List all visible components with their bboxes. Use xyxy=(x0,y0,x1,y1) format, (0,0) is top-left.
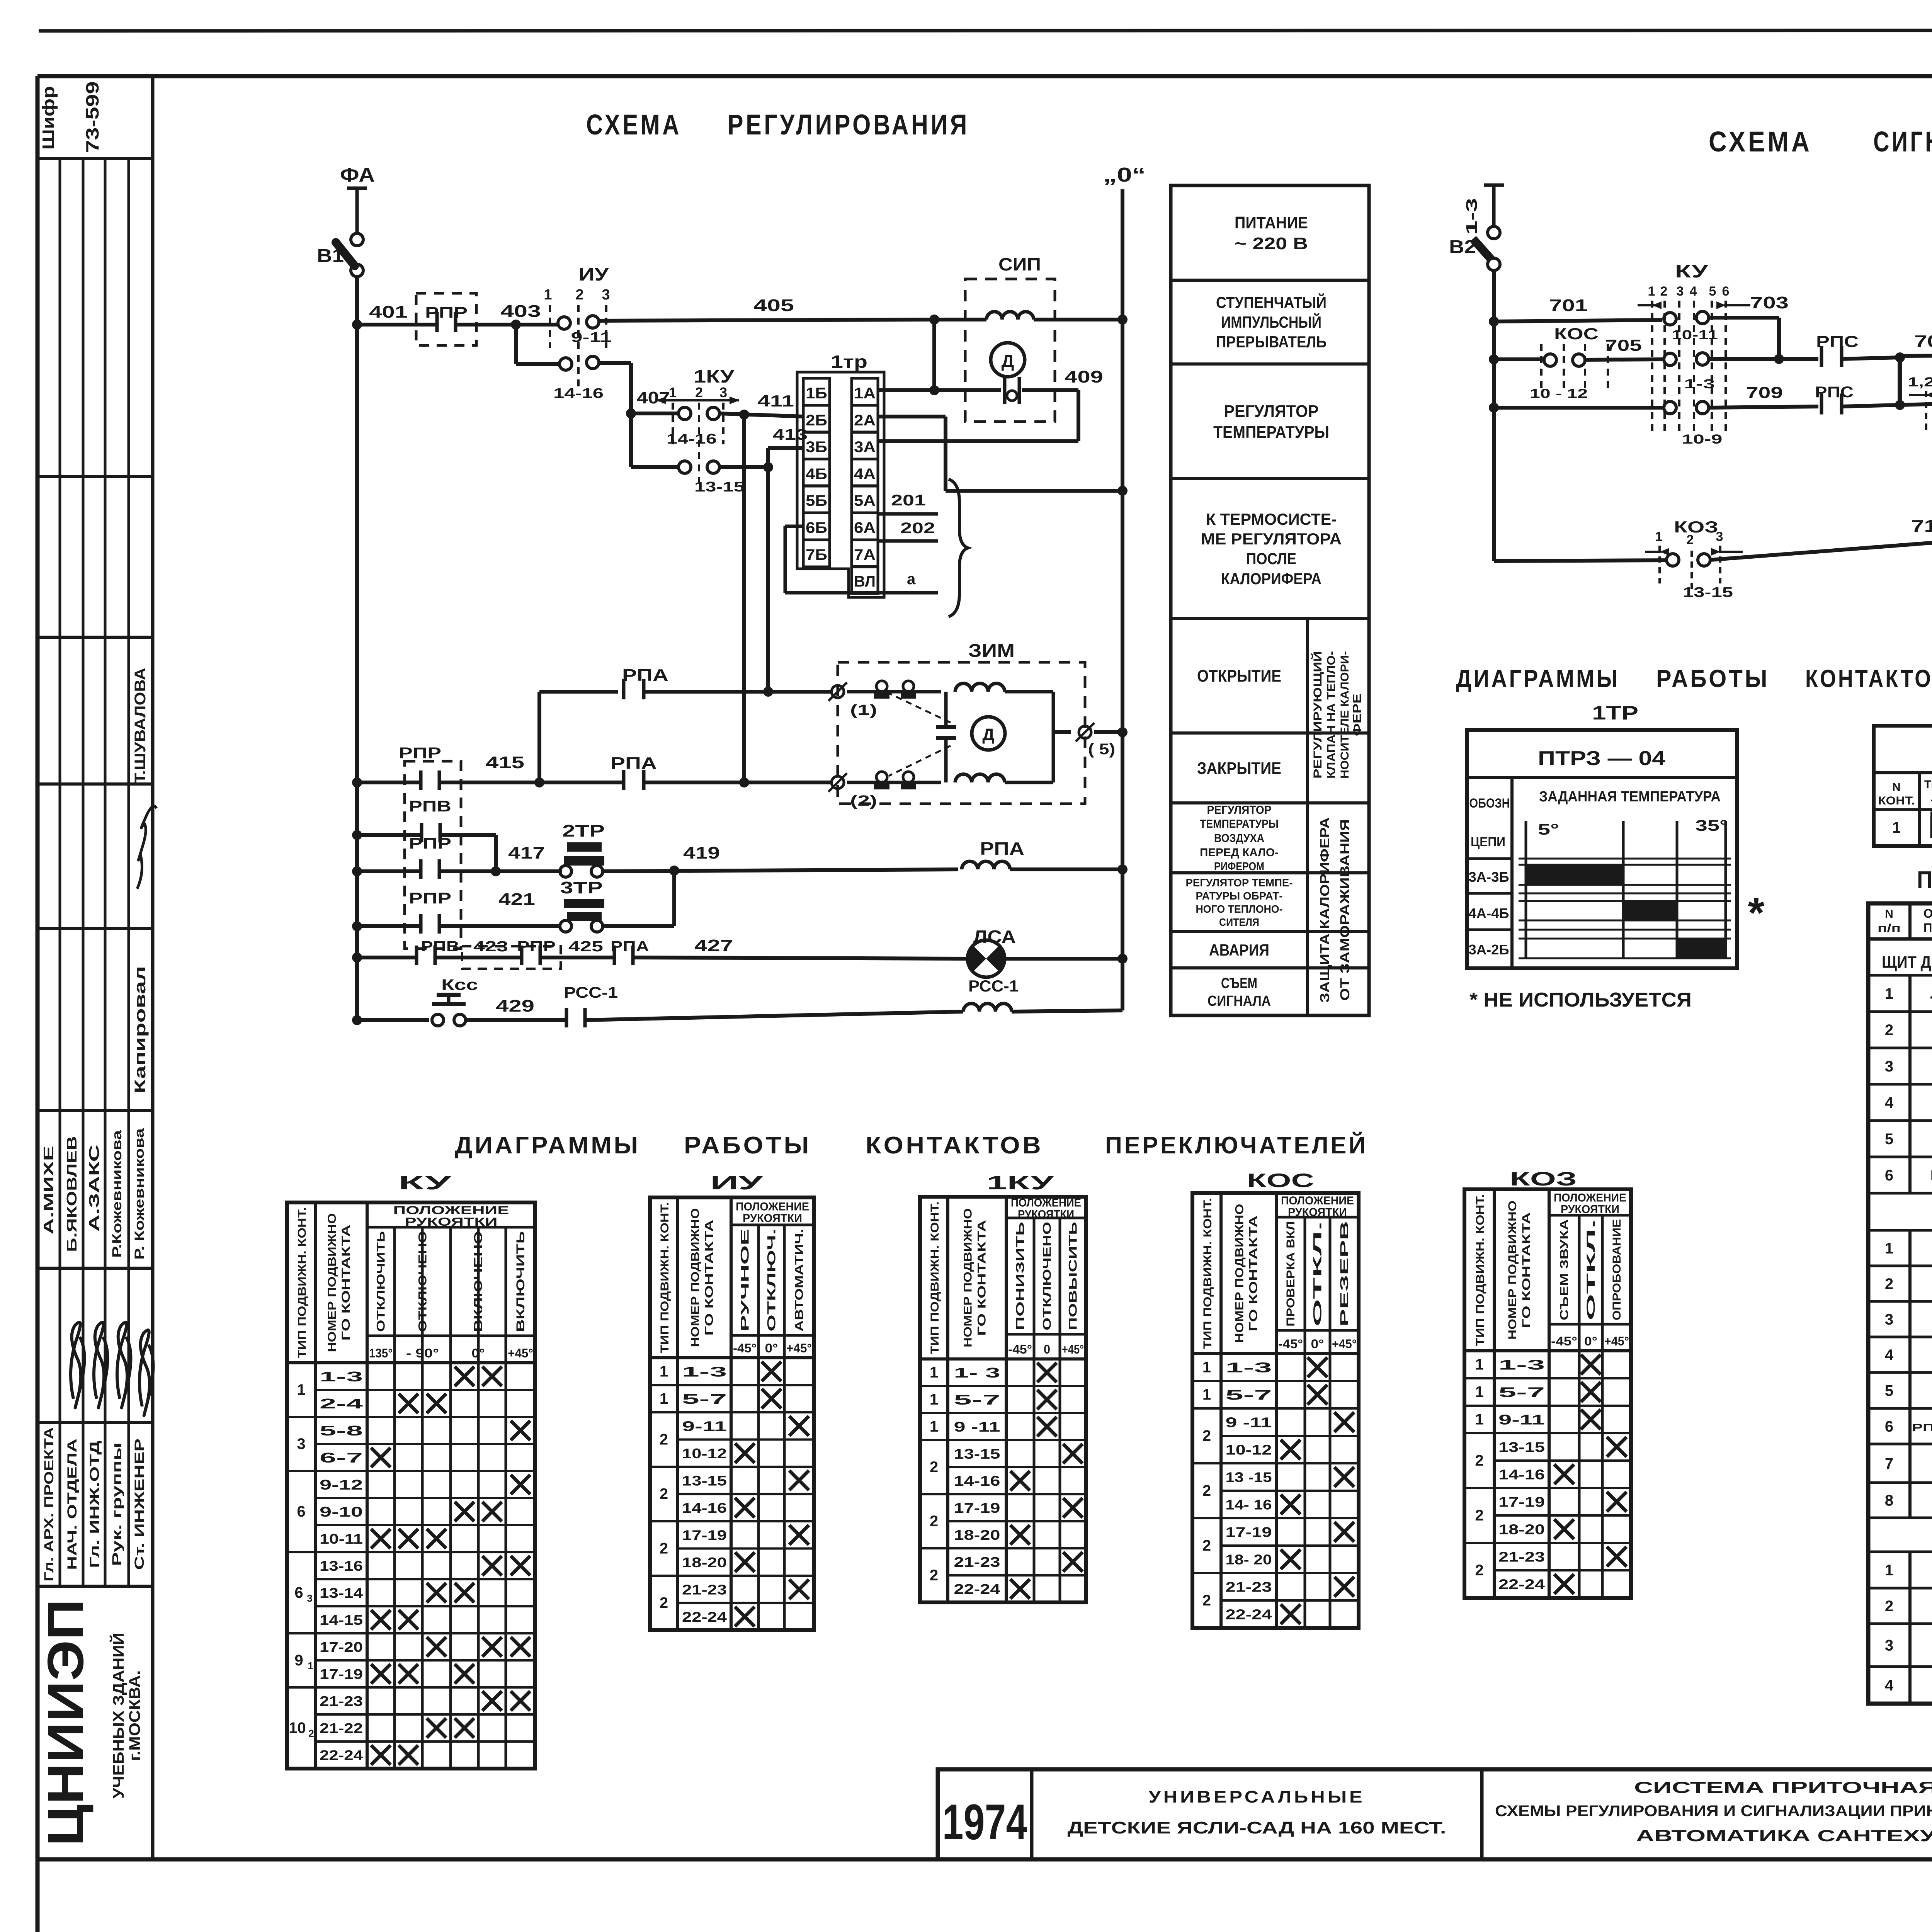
svg-text:п/п: п/п xyxy=(1878,922,1901,935)
svg-text:ЩИТ ДИСТАНЦИОННОГО УПРАВЛЕНИ: ЩИТ ДИСТАНЦИОННОГО УПРАВЛЕНИЯ И АВАРИЙНО… xyxy=(1882,952,1932,972)
ZIM dashed link lines xyxy=(889,693,951,723)
svg-text:1: 1 xyxy=(1648,284,1655,299)
svg-text:ТЕМПЕРАТУРЫ: ТЕМПЕРАТУРЫ xyxy=(1213,423,1329,442)
net 705 from bus xyxy=(1494,357,1544,361)
svg-text:2: 2 xyxy=(695,384,703,400)
svg-text:22-24: 22-24 xyxy=(1226,1607,1272,1622)
wire 705 xyxy=(1585,359,1664,360)
svg-text:РУКОЯТКИ: РУКОЯТКИ xyxy=(1561,1203,1619,1216)
svg-text:1- 3: 1- 3 xyxy=(954,1365,1000,1381)
svg-text:НОМЕР ПОДВИЖНО: НОМЕР ПОДВИЖНО xyxy=(326,1213,338,1352)
svg-text:ДИАГРАММЫ: ДИАГРАММЫ xyxy=(455,1132,640,1159)
svg-text:429: 429 xyxy=(496,997,534,1015)
svg-text:14-16: 14-16 xyxy=(1498,1467,1545,1483)
svg-text:10-11: 10-11 xyxy=(320,1531,363,1547)
svg-text:1: 1 xyxy=(1202,1359,1211,1376)
svg-text:НОМЕР ПОДВИЖНО: НОМЕР ПОДВИЖНО xyxy=(1233,1204,1246,1343)
svg-text:9 -11: 9 -11 xyxy=(954,1419,1000,1435)
svg-text:1974: 1974 xyxy=(942,1794,1027,1850)
wire 401 xyxy=(357,323,437,327)
svg-text:1: 1 xyxy=(1655,529,1663,544)
svg-text:ЗИМ: ЗИМ xyxy=(968,641,1015,661)
svg-text:СХЕМЫ РЕГУЛИРОВАНИЯ И СИГНАЛИ: СХЕМЫ РЕГУЛИРОВАНИЯ И СИГНАЛИЗАЦИИ ПРИНЦ… xyxy=(1495,1803,1932,1820)
svg-text:ПОЛОЖЕНИЕ: ПОЛОЖЕНИЕ xyxy=(1554,1192,1626,1204)
svg-text:г.МОСКВА.: г.МОСКВА. xyxy=(126,1670,143,1761)
svg-text:ДЕТСКИЕ ЯСЛИ-САД НА 160 МЕС: ДЕТСКИЕ ЯСЛИ-САД НА 160 МЕСТ. xyxy=(1068,1818,1446,1837)
svg-text:КОНТАКТОВ: КОНТАКТОВ xyxy=(866,1132,1043,1159)
svg-text:0°: 0° xyxy=(1584,1334,1597,1348)
svg-text:*: * xyxy=(1748,889,1765,937)
wire 703 xyxy=(1709,316,1779,320)
svg-text:СИГНАЛИЗАЦИИ: СИГНАЛИЗАЦИИ xyxy=(1873,126,1932,158)
svg-text:1А: 1А xyxy=(854,385,876,402)
svg-text:10-9: 10-9 xyxy=(1682,432,1723,447)
svg-text:ИУ: ИУ xyxy=(710,1172,764,1194)
svg-text:РПА: РПА xyxy=(611,939,649,955)
svg-text:2: 2 xyxy=(930,1567,938,1584)
svg-text:РПА,РСС-1: РПА,РСС-1 xyxy=(1912,1422,1932,1434)
svg-text:ФА: ФА xyxy=(340,164,375,186)
svg-text:ОБОЗНАЧ.: ОБОЗНАЧ. xyxy=(1923,906,1932,920)
svg-text:3: 3 xyxy=(719,384,727,400)
zero bus left schematic xyxy=(1121,189,1124,1010)
svg-text:РПА: РПА xyxy=(611,754,657,773)
svg-text:РЕГУЛИРУЮЩИЙ: РЕГУЛИРУЮЩИЙ xyxy=(1311,651,1324,779)
svg-text:419: 419 xyxy=(683,844,720,862)
svg-text:-45°: -45° xyxy=(1008,1342,1032,1356)
svg-text:КОЗ: КОЗ xyxy=(1674,518,1718,536)
net 701 xyxy=(1494,320,1662,321)
svg-text:N: N xyxy=(1885,908,1893,920)
svg-text:2: 2 xyxy=(308,1728,314,1739)
svg-text:9: 9 xyxy=(294,1652,303,1669)
svg-text:РЕЗЕРВ: РЕЗЕРВ xyxy=(1338,1221,1351,1327)
svg-text:14-15: 14-15 xyxy=(320,1612,363,1628)
TUDE-1 bar xyxy=(1932,818,1932,837)
sheet top trim line xyxy=(39,30,1932,31)
svg-text:6: 6 xyxy=(294,1584,303,1601)
svg-text:7Б: 7Б xyxy=(806,546,827,563)
IU lower contact 14-16 xyxy=(514,325,518,364)
RPR dashed box tall xyxy=(405,761,461,949)
svg-text:Кcc: Кcc xyxy=(441,976,478,993)
svg-text:+45°: +45° xyxy=(508,1346,533,1360)
svg-text:2: 2 xyxy=(660,1595,668,1612)
svg-text:КОС: КОС xyxy=(1554,325,1599,343)
svg-text:РПВ: РПВ xyxy=(421,939,459,955)
svg-text:5А: 5А xyxy=(854,492,876,509)
svg-text:1: 1 xyxy=(1885,985,1893,1002)
svg-text:В2: В2 xyxy=(1449,237,1476,257)
svg-text:РПС: РПС xyxy=(1815,384,1854,401)
svg-text:РПР: РПР xyxy=(399,745,441,762)
svg-text:ВОЗДУХА: ВОЗДУХА xyxy=(1214,832,1264,845)
KU contact bottom pair xyxy=(1664,401,1676,414)
svg-text:1: 1 xyxy=(660,1390,668,1407)
1KU contact 14-16 xyxy=(679,407,691,420)
svg-text:3: 3 xyxy=(1885,1637,1893,1654)
svg-text:Д: Д xyxy=(1002,351,1014,371)
svg-text:ИМПУЛЬСНЫЙ: ИМПУЛЬСНЫЙ xyxy=(1221,313,1321,331)
svg-text:10-11: 10-11 xyxy=(1672,328,1718,342)
svg-text:705: 705 xyxy=(1605,336,1642,354)
svg-text:21-23: 21-23 xyxy=(682,1582,727,1597)
svg-text:13-15: 13-15 xyxy=(682,1473,727,1488)
svg-text:2: 2 xyxy=(660,1431,668,1448)
svg-text:РУЧНОЕ: РУЧНОЕ xyxy=(739,1229,752,1332)
ZIM right side xyxy=(1052,692,1055,782)
svg-text:Р. Кожевникова: Р. Кожевникова xyxy=(132,1128,147,1260)
svg-text:ПОЛОЖЕНИЕ: ПОЛОЖЕНИЕ xyxy=(736,1201,809,1213)
net 419 xyxy=(603,869,958,871)
svg-text:427: 427 xyxy=(694,936,733,955)
svg-text:СИП: СИП xyxy=(998,254,1041,274)
svg-text:1: 1 xyxy=(1202,1386,1211,1403)
svg-text:КОНТАКТОВ: КОНТАКТОВ xyxy=(1805,665,1932,692)
svg-text:+45°: +45° xyxy=(786,1341,812,1355)
svg-text:1: 1 xyxy=(1892,819,1901,836)
net 709 xyxy=(1494,406,1664,410)
svg-text:ЗАЩИТА КАЛОРИФЕРА: ЗАЩИТА КАЛОРИФЕРА xyxy=(1318,817,1332,1003)
svg-text:709: 709 xyxy=(1746,383,1783,401)
svg-text:21-23: 21-23 xyxy=(320,1693,363,1709)
junction vertical 4917 xyxy=(1898,357,1902,405)
svg-text:В1: В1 xyxy=(317,246,344,266)
svg-text:Рук. группы: Рук. группы xyxy=(110,1442,124,1566)
svg-text:РУКОЯТКИ: РУКОЯТКИ xyxy=(1288,1206,1347,1219)
svg-text:13-14: 13-14 xyxy=(320,1585,363,1601)
svg-text:407: 407 xyxy=(637,388,670,407)
svg-text:-45°: -45° xyxy=(1278,1337,1303,1351)
svg-text:17-19: 17-19 xyxy=(682,1527,727,1543)
svg-text:401: 401 xyxy=(369,303,408,321)
net RPV xyxy=(357,833,420,837)
svg-text:РУКОЯТКИ: РУКОЯТКИ xyxy=(1018,1208,1074,1221)
svg-text:ПО СХЕМЕ: ПО СХЕМЕ xyxy=(1923,921,1932,935)
svg-text:8: 8 xyxy=(1885,1492,1893,1509)
svg-text:2: 2 xyxy=(660,1486,668,1503)
svg-text:1: 1 xyxy=(930,1418,938,1435)
PTRE bar 3A-2B xyxy=(1677,939,1726,958)
RPS contact on 705-707 xyxy=(1820,346,1823,367)
svg-text:18- 20: 18- 20 xyxy=(1226,1552,1272,1568)
svg-text:9 -11: 9 -11 xyxy=(1226,1415,1272,1430)
svg-text:РПР: РПР xyxy=(409,835,451,852)
svg-text:ПТРЗ — 04: ПТРЗ — 04 xyxy=(1538,747,1665,770)
svg-text:6: 6 xyxy=(1885,1418,1893,1435)
svg-text:КЛАПАН НА ТЕПЛО-: КЛАПАН НА ТЕПЛО- xyxy=(1325,651,1338,779)
svg-text:5°: 5° xyxy=(1538,821,1559,838)
net 429 KSS button xyxy=(357,1018,429,1022)
svg-text:1: 1 xyxy=(308,1660,313,1672)
PTRE bar 4A-4B xyxy=(1623,901,1677,920)
equipment table column lines xyxy=(1908,903,1912,939)
table TUDE-1 xyxy=(1874,726,1932,846)
svg-text:ТИП ПОДВИЖН. КОНТ.: ТИП ПОДВИЖН. КОНТ. xyxy=(1201,1198,1214,1349)
svg-text:701: 701 xyxy=(1549,296,1588,315)
svg-text:СИГНАЛА: СИГНАЛА xyxy=(1207,993,1271,1009)
svg-text:НАЧ. ОТДЕЛА: НАЧ. ОТДЕЛА xyxy=(65,1439,80,1570)
svg-text:2ТР: 2ТР xyxy=(562,821,605,840)
svg-text:Д: Д xyxy=(982,725,994,744)
svg-text:(1): (1) xyxy=(850,702,877,718)
svg-text:22-24: 22-24 xyxy=(954,1581,1000,1597)
wire from IU to 1KU xyxy=(629,363,633,413)
svg-text:2: 2 xyxy=(1475,1452,1483,1469)
svg-text:ПЕРЕКЛЮЧАТЕЛЕЙ: ПЕРЕКЛЮЧАТЕЛЕЙ xyxy=(1105,1132,1368,1159)
ZIM capacitor branch xyxy=(944,692,948,726)
svg-text:КУ: КУ xyxy=(398,1172,452,1194)
equipment table frame xyxy=(1868,903,1932,1704)
svg-text:АВАРИЯ: АВАРИЯ xyxy=(1209,941,1269,959)
svg-text:РАБОТЫ: РАБОТЫ xyxy=(1656,665,1769,692)
svg-text:21-23: 21-23 xyxy=(1498,1549,1545,1565)
svg-text:403: 403 xyxy=(500,302,541,321)
svg-text:5-8: 5-8 xyxy=(320,1423,363,1439)
svg-text:6Б: 6Б xyxy=(806,519,827,536)
net 415 xyxy=(357,781,419,784)
svg-text:17-19: 17-19 xyxy=(320,1666,363,1682)
svg-text:7А: 7А xyxy=(854,546,876,563)
svg-text:ПОЛОЖЕНИЕ: ПОЛОЖЕНИЕ xyxy=(1281,1194,1354,1207)
svg-text:2: 2 xyxy=(1660,284,1668,299)
svg-text:3: 3 xyxy=(1677,284,1684,299)
wire 201 xyxy=(878,512,938,516)
svg-text:9-10: 9-10 xyxy=(320,1504,363,1520)
wire 413 xyxy=(719,465,768,469)
svg-text:-45°: -45° xyxy=(1551,1334,1577,1348)
KU contact top pair xyxy=(1664,313,1676,325)
svg-text:4: 4 xyxy=(1690,284,1697,299)
svg-text:1ТР: 1ТР xyxy=(1592,702,1638,724)
net 713 from bus xyxy=(1494,560,1665,561)
svg-text:ВКЛЮЧЕНО: ВКЛЮЧЕНО xyxy=(472,1231,485,1332)
svg-text:УЧЕБНЫХ ЗДАНИЙ: УЧЕБНЫХ ЗДАНИЙ xyxy=(109,1633,127,1799)
svg-text:9-11: 9-11 xyxy=(682,1418,727,1434)
svg-text:13-15: 13-15 xyxy=(954,1446,1000,1462)
svg-text:6-7: 6-7 xyxy=(320,1450,363,1466)
vertical 1396 to net 415 xyxy=(537,692,541,782)
svg-text:ОТКЛ.: ОТКЛ. xyxy=(1585,1219,1597,1320)
legend table left schematic xyxy=(1171,185,1369,1015)
svg-text:Б.ЯКОВЛЕВ: Б.ЯКОВЛЕВ xyxy=(64,1136,80,1252)
svg-text:3ТР: 3ТР xyxy=(560,878,603,897)
signature scribble xyxy=(137,806,156,889)
svg-text:417: 417 xyxy=(508,844,545,862)
svg-text:2: 2 xyxy=(1885,1598,1893,1615)
svg-text:(2): (2) xyxy=(850,793,877,809)
PTRE chart grid xyxy=(1525,821,1527,958)
SIP coil on 405 xyxy=(934,318,986,321)
wire a from 6B xyxy=(785,525,803,528)
svg-text:АВТОМАТИКА САНТЕХУСТРОЙСТ: АВТОМАТИКА САНТЕХУСТРОЙСТВ. xyxy=(1636,1826,1932,1845)
svg-text:РУКОЯТКИ: РУКОЯТКИ xyxy=(405,1216,498,1228)
legend split column xyxy=(1306,619,1309,1015)
svg-text:Шифр: Шифр xyxy=(39,86,58,150)
svg-text:409: 409 xyxy=(1065,367,1103,386)
svg-text:2: 2 xyxy=(1687,532,1694,547)
bottom title block frame xyxy=(938,1769,1932,1859)
svg-text:73-599: 73-599 xyxy=(82,82,102,153)
svg-text:РПР: РПР xyxy=(409,890,451,907)
svg-text:1-3: 1-3 xyxy=(1498,1357,1545,1373)
svg-text:10-12: 10-12 xyxy=(1226,1442,1272,1458)
svg-text:10-12: 10-12 xyxy=(682,1446,727,1461)
svg-text:РЕГУЛЯТОР: РЕГУЛЯТОР xyxy=(1207,804,1272,816)
svg-text:РАТУРЫ ОБРАТ-: РАТУРЫ ОБРАТ- xyxy=(1196,890,1283,902)
svg-text:703: 703 xyxy=(1750,293,1789,312)
svg-text:21-22: 21-22 xyxy=(320,1720,363,1736)
svg-text:13-15: 13-15 xyxy=(694,479,745,495)
net 711 xyxy=(1900,404,1932,405)
svg-text:2: 2 xyxy=(1202,1427,1211,1444)
svg-text:ЛСА-1: ЛСА-1 xyxy=(1930,986,1932,1002)
wire 409 from 1A via SIP thermal contact to 3A xyxy=(878,388,1001,392)
svg-text:1: 1 xyxy=(930,1391,938,1408)
svg-text:14- 16: 14- 16 xyxy=(1226,1497,1272,1513)
svg-text:1КУ: 1КУ xyxy=(694,366,735,386)
svg-text:РПА: РПА xyxy=(622,666,668,685)
svg-text:Т.ШУВАЛОВА: Т.ШУВАЛОВА xyxy=(132,668,149,784)
svg-text:УНИВЕРСАЛЬНЫЕ: УНИВЕРСАЛЬНЫЕ xyxy=(1149,1787,1365,1806)
svg-text:4: 4 xyxy=(1885,1677,1894,1694)
svg-text:0: 0 xyxy=(1044,1342,1050,1356)
svg-text:А.МИХЕ: А.МИХЕ xyxy=(41,1146,56,1235)
relay contact RPR on 401 xyxy=(416,293,476,345)
svg-text:ТИП ПОДВИЖН. КОНТ.: ТИП ПОДВИЖН. КОНТ. xyxy=(296,1207,309,1358)
svg-text:6: 6 xyxy=(297,1503,305,1520)
svg-text:ЗАКРЫТИЕ: ЗАКРЫТИЕ xyxy=(1197,759,1281,778)
svg-text:2: 2 xyxy=(930,1513,938,1530)
RPA coil on 419 xyxy=(962,861,1010,869)
title strip right edge xyxy=(151,76,155,1859)
svg-text:411: 411 xyxy=(757,392,794,410)
svg-text:РЕГУЛЯТОР ТЕМПЕ-: РЕГУЛЯТОР ТЕМПЕ- xyxy=(1186,877,1293,889)
svg-text:713: 713 xyxy=(1911,517,1932,536)
svg-text:НОГО ТЕПЛОНО-: НОГО ТЕПЛОНО- xyxy=(1196,903,1283,915)
svg-text:ГО КОНТАКТА: ГО КОНТАКТА xyxy=(1520,1212,1533,1328)
svg-text:СИСТЕМА ПРИТОЧНАЯ П-1 ( П-2: СИСТЕМА ПРИТОЧНАЯ П-1 ( П-2 ) . xyxy=(1634,1778,1932,1796)
svg-text:РУКОЯТКИ: РУКОЯТКИ xyxy=(743,1212,802,1225)
wire 405 xyxy=(599,320,934,321)
svg-text:~ 220 В: ~ 220 В xyxy=(1235,234,1308,253)
svg-text:РЕГУЛЯТОР: РЕГУЛЯТОР xyxy=(1224,402,1319,421)
wire 411 xyxy=(719,413,803,417)
svg-text:6А: 6А xyxy=(854,519,876,536)
svg-text:ПОНИЗИТЬ: ПОНИЗИТЬ xyxy=(1014,1222,1027,1330)
SIP dashed box xyxy=(965,279,1055,422)
svg-text:5-7: 5-7 xyxy=(954,1392,1000,1408)
strip column lines xyxy=(59,158,61,1586)
svg-text:Гл. ИНЖ.ОТД: Гл. ИНЖ.ОТД xyxy=(87,1440,102,1568)
net 707 to lamp LSA-1 xyxy=(1900,355,1932,356)
wire 713 xyxy=(1710,541,1932,560)
svg-text:„0“: „0“ xyxy=(1103,164,1146,186)
svg-text:1: 1 xyxy=(297,1381,305,1398)
svg-text:ГО КОНТАКТА: ГО КОНТАКТА xyxy=(976,1220,988,1336)
svg-text:22-24: 22-24 xyxy=(1498,1577,1545,1592)
svg-text:( 5): ( 5) xyxy=(1088,741,1115,758)
1KU contact 13-15 xyxy=(629,413,633,467)
svg-text:+45°: +45° xyxy=(1604,1334,1629,1348)
svg-text:ПЕРЕД КАЛО-: ПЕРЕД КАЛО- xyxy=(1200,846,1279,859)
svg-text:9-12: 9-12 xyxy=(320,1477,363,1493)
svg-text:РСС-2: РСС-2 xyxy=(1930,1167,1932,1183)
svg-text:0°: 0° xyxy=(472,1346,485,1360)
svg-text:НОСИТЕЛЕ КАЛОРИ-: НОСИТЕЛЕ КАЛОРИ- xyxy=(1338,651,1351,779)
svg-text:14-16: 14-16 xyxy=(553,385,604,401)
svg-text:СЪЕМ ЗВУКА: СЪЕМ ЗВУКА xyxy=(1558,1219,1571,1320)
svg-text:ИУ: ИУ xyxy=(578,264,609,284)
svg-text:СХЕМА: СХЕМА xyxy=(586,109,682,141)
svg-text:17-19: 17-19 xyxy=(954,1500,1000,1516)
svg-text:К ТЕРМОСИСТЕ-: К ТЕРМОСИСТЕ- xyxy=(1206,510,1337,528)
svg-text:ОТ ЗАМОРАЖИВАНИЯ: ОТ ЗАМОРАЖИВАНИЯ xyxy=(1338,819,1352,1001)
svg-text:СИТЕЛЯ: СИТЕЛЯ xyxy=(1219,916,1259,928)
svg-text:2А: 2А xyxy=(854,412,876,429)
svg-text:ЗАДАННАЯ ТЕМПЕРАТУРА: ЗАДАННАЯ ТЕМПЕРАТУРА xyxy=(1539,789,1721,805)
svg-text:1-3: 1-3 xyxy=(1684,377,1715,391)
vertical feed A to net 415 xyxy=(742,415,746,782)
svg-text:1: 1 xyxy=(1885,1562,1893,1579)
svg-text:ВЛ: ВЛ xyxy=(854,573,876,590)
svg-text:14-16: 14-16 xyxy=(954,1473,1000,1489)
ZIM dashed box xyxy=(838,662,1085,804)
svg-text:21-23: 21-23 xyxy=(1226,1579,1272,1595)
svg-text:18-20: 18-20 xyxy=(954,1527,1000,1543)
svg-text:ГО КОНТАКТА: ГО КОНТАКТА xyxy=(340,1225,352,1341)
svg-text:ГО КОНТАКТА: ГО КОНТАКТА xyxy=(1247,1216,1260,1332)
svg-text:0°: 0° xyxy=(765,1341,778,1355)
wire 202 xyxy=(878,539,938,543)
svg-text:13 -15: 13 -15 xyxy=(1226,1469,1272,1485)
svg-text:425: 425 xyxy=(568,939,603,955)
svg-text:ВКЛЮЧИТЬ: ВКЛЮЧИТЬ xyxy=(514,1231,527,1332)
svg-text:- 90°: - 90° xyxy=(406,1346,439,1360)
svg-text:5Б: 5Б xyxy=(806,492,827,509)
svg-text:135°: 135° xyxy=(369,1346,393,1360)
svg-text:1: 1 xyxy=(1885,1240,1893,1257)
svg-text:7: 7 xyxy=(1885,1455,1893,1472)
svg-text:5: 5 xyxy=(1709,284,1716,299)
svg-text:НОМЕР ПОДВИЖНО: НОМЕР ПОДВИЖНО xyxy=(689,1208,702,1347)
svg-text:9-11: 9-11 xyxy=(1498,1412,1545,1428)
svg-text:ОТКЛЮЧЕНО: ОТКЛЮЧЕНО xyxy=(417,1231,429,1332)
svg-text:РПА: РПА xyxy=(980,838,1024,859)
svg-text:35°: 35° xyxy=(1696,817,1728,834)
svg-text:17-19: 17-19 xyxy=(1498,1494,1545,1510)
svg-text:ПОСЛЕ: ПОСЛЕ xyxy=(1246,549,1296,568)
svg-text:5: 5 xyxy=(1885,1383,1893,1400)
svg-text:КАЛОРИФЕРА: КАЛОРИФЕРА xyxy=(1221,570,1321,588)
terminal 1-3 right xyxy=(1484,184,1504,187)
svg-text:21-23: 21-23 xyxy=(954,1554,1000,1570)
svg-text:МЕ РЕГУЛЯТОРА: МЕ РЕГУЛЯТОРА xyxy=(1201,530,1342,548)
net 427 xyxy=(357,956,415,959)
svg-text:1-3: 1-3 xyxy=(1463,198,1480,235)
svg-text:0°: 0° xyxy=(1311,1337,1324,1351)
svg-text:3: 3 xyxy=(307,1592,312,1604)
svg-text:РПВ: РПВ xyxy=(409,798,451,815)
svg-text:4Б: 4Б xyxy=(806,466,827,483)
svg-text:ОТКЛ.: ОТКЛ. xyxy=(1311,1221,1324,1327)
svg-text:ДИАГРАММЫ: ДИАГРАММЫ xyxy=(1456,665,1620,692)
wire 403 xyxy=(456,323,558,327)
svg-text:РАБОТЫ: РАБОТЫ xyxy=(684,1132,811,1159)
svg-text:ЦНИИЭП: ЦНИИЭП xyxy=(37,1599,94,1846)
svg-text:3: 3 xyxy=(1885,1058,1893,1075)
svg-text:1: 1 xyxy=(1475,1384,1483,1401)
